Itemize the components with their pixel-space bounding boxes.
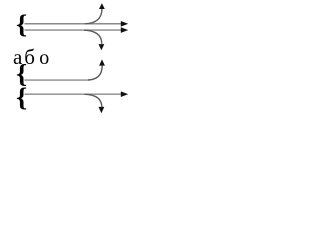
brace bottom row 1 xyxy=(16,59,27,88)
curve down from bottom line 2 xyxy=(85,94,102,107)
wire: top line 2 xyxy=(25,29,123,31)
arrowhead down xyxy=(99,44,105,50)
arrowhead right on bottom line 2 xyxy=(121,91,128,97)
diagram: two alternative branching schemes separated by word "або" xyxy=(0,0,143,115)
label "або" xyxy=(13,45,49,69)
svg-text:о: о xyxy=(39,47,49,69)
curve up from bottom line 1 xyxy=(88,66,102,80)
wire: bottom line 2 xyxy=(25,93,123,95)
svg-text:{: { xyxy=(16,83,27,112)
arrowhead up xyxy=(99,3,105,9)
curve up from top line 1 xyxy=(85,9,102,24)
wire: bottom line 1 xyxy=(25,79,90,81)
arrowhead down bottom row 2 xyxy=(99,107,105,113)
brace top group xyxy=(16,10,27,39)
wire: top line 1 xyxy=(25,23,123,25)
brace bottom row 2 xyxy=(16,83,27,112)
arrowhead up bottom row 1 xyxy=(99,59,105,65)
arrowhead right on top line 2 xyxy=(121,27,128,33)
arrowhead right on top line 1 xyxy=(121,21,128,27)
curve down from top line 2 xyxy=(84,30,102,44)
